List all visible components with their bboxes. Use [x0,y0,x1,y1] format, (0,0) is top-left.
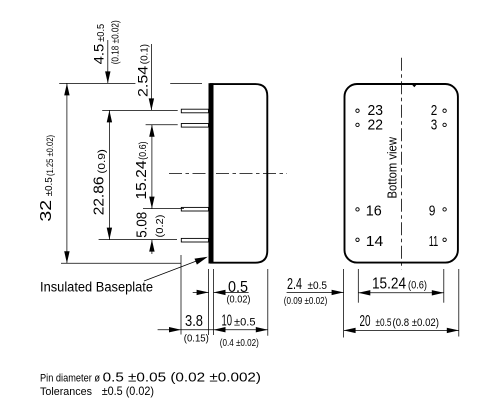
horizontal centerline (side view) [169,173,287,175]
svg-text:(0.15): (0.15) [184,332,209,344]
pin 22 circle [356,123,359,126]
svg-text:16: 16 [366,204,382,220]
dimension stub 2.54 [150,44,152,110]
svg-text:(0.18 ±0.02): (0.18 ±0.02) [111,20,122,64]
pin 2 circle [443,109,446,112]
extension line: baseplate right face [213,269,215,335]
svg-text:2.4: 2.4 [287,276,302,293]
extension line: right pin column [443,269,445,303]
svg-text:3.8: 3.8 [185,313,203,330]
svg-text:±0.5: ±0.5 [96,23,107,41]
svg-text:(0.6): (0.6) [137,141,149,160]
dimension line 32 [66,83,68,263]
svg-text:±0.5: ±0.5 [234,317,256,329]
dimension line 15.24 (bottom view) [358,292,444,294]
leader line to insulated baseplate [144,259,203,282]
svg-text:(0.09 ±0.02): (0.09 ±0.02) [284,295,328,307]
svg-text:32: 32 [38,200,55,222]
dimension 0.5 baseplate thickness [193,291,249,293]
svg-text:14: 14 [366,234,384,250]
svg-text:3: 3 [431,117,438,133]
pin 23 circle [356,109,359,112]
dimension line 3.8 / 10 [158,329,268,331]
extension line: pin row 1 [102,109,178,111]
svg-text:9: 9 [429,204,436,220]
extension line: body top [59,82,202,84]
extension line: body bottom [61,262,181,264]
bottom view body outline [345,84,458,263]
svg-text:(0.1): (0.1) [138,44,150,64]
svg-text:11: 11 [429,234,439,250]
dimension line 20 [344,329,459,331]
pin 11 circle [443,238,446,241]
pin 4 (side view) [181,238,208,242]
svg-text:2.54: 2.54 [134,66,150,97]
extension line: left pin column [357,269,359,303]
svg-text:(1.25 ±0.02): (1.25 ±0.02) [45,135,56,176]
extension line: pin tips [180,255,182,335]
svg-text:±0.5: ±0.5 [376,317,392,329]
side view body outline [210,84,267,263]
dimension line 15.24 (side) [151,125,153,209]
svg-text:0.5 ±0.05 (0.02 ±0.002): 0.5 ±0.05 (0.02 ±0.002) [103,370,261,384]
svg-text:22.86: 22.86 [92,177,108,216]
extension line: baseplate left face [208,269,210,335]
svg-text:4.5: 4.5 [90,44,106,65]
svg-text:(0.2): (0.2) [154,215,166,238]
svg-text:Bottom view: Bottom view [386,136,400,198]
pin 14 circle [356,238,359,241]
svg-text:Tolerances: Tolerances [40,386,92,398]
insulated baseplate bar (side view left edge) [209,83,214,263]
extension line: body right edge [267,269,269,336]
svg-text:Insulated Baseplate: Insulated Baseplate [40,280,153,295]
svg-text:±0.5: ±0.5 [44,177,55,197]
extension line: bottom view left edge [343,269,345,338]
svg-text:±0.5: ±0.5 [308,280,328,292]
svg-text:10: 10 [222,313,233,330]
pin 16 circle [356,208,359,211]
pin 9 circle [443,208,446,211]
pin 1 (side view) [181,109,208,113]
svg-text:(0.8 ±0.02): (0.8 ±0.02) [393,317,440,329]
svg-text:Pin diameter ø: Pin diameter ø [40,372,100,384]
pin 1 orientation notch [412,85,417,88]
svg-text:15.24: 15.24 [134,161,150,200]
svg-text:(0.9): (0.9) [96,149,108,174]
svg-text:(0.6): (0.6) [408,280,427,292]
dimension 2.4 leader line [287,291,344,293]
svg-text:±0.5 (0.02): ±0.5 (0.02) [102,384,154,398]
dimension stub 5.08 [151,240,153,254]
dimension line 22.86 [108,110,110,239]
svg-text:20: 20 [360,313,371,330]
pin 3 circle [443,123,446,126]
extension line: bottom view right edge [458,269,460,337]
svg-text:(0.02): (0.02) [227,293,251,305]
extension line: pin row 2 [146,124,178,126]
svg-text:15.24: 15.24 [372,276,406,293]
pin 3 (side view) [181,207,208,211]
vertical centerline (bottom view) [400,58,402,270]
svg-text:(0.4 ±0.02): (0.4 ±0.02) [220,337,259,349]
extension line: pin row 3 [143,208,184,210]
pin 2 (side view) [181,124,208,128]
dimension stub 4.5 [107,40,109,83]
extension line: pin row 4 [99,239,177,241]
svg-text:5.08: 5.08 [134,212,150,238]
svg-text:22: 22 [368,117,384,133]
